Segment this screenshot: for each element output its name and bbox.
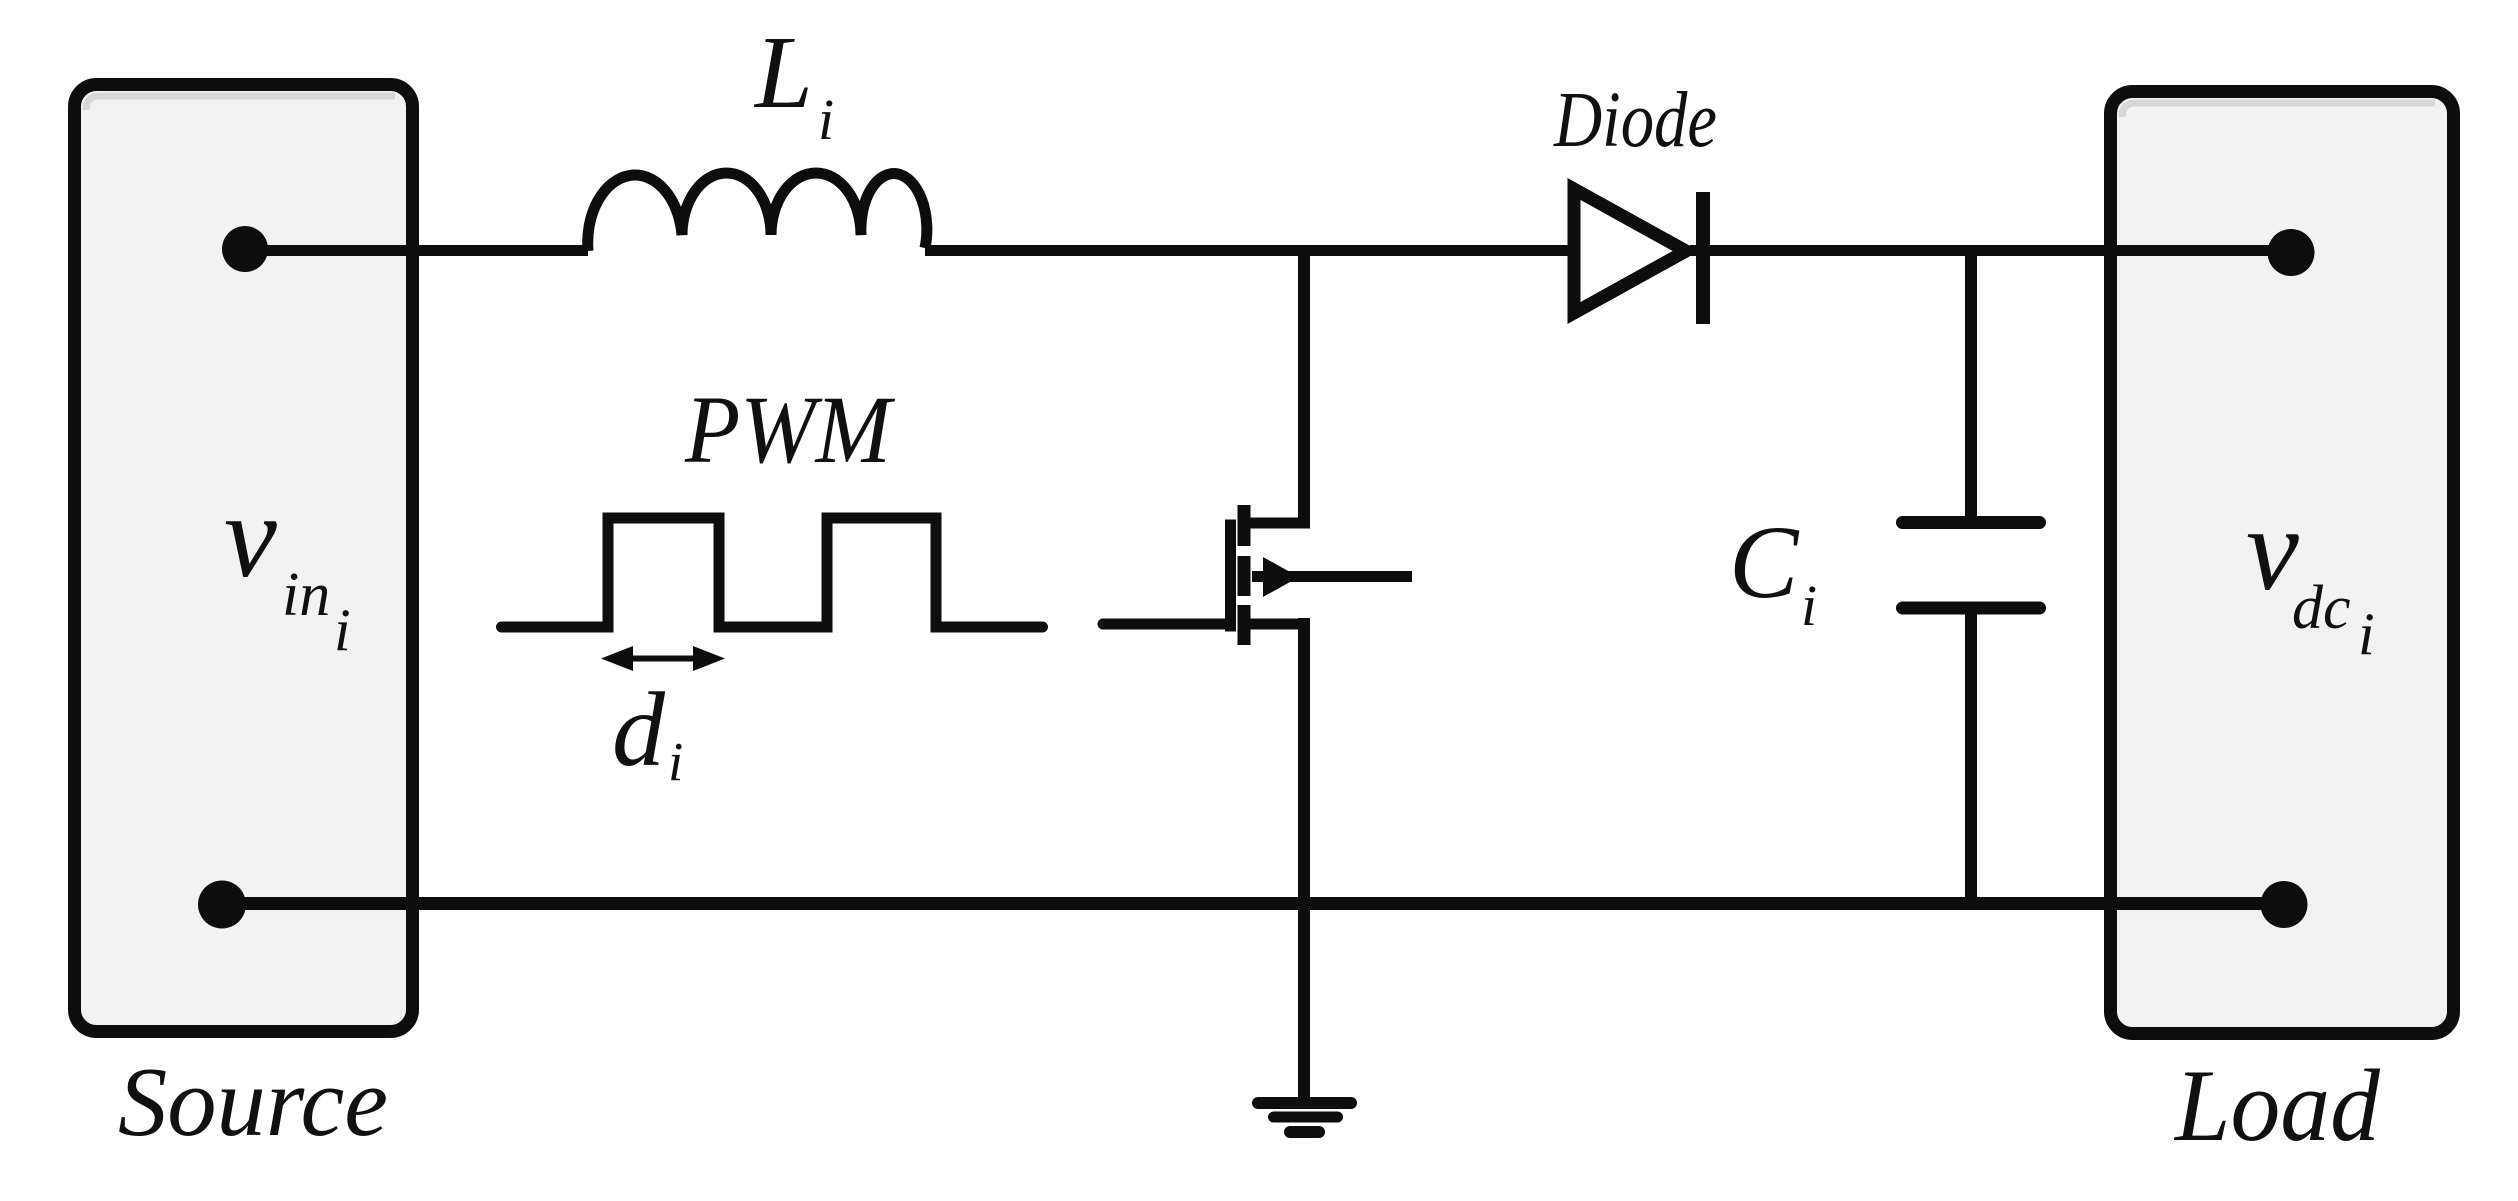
svg-text:i: i <box>334 597 351 663</box>
transistor Q1 channel bar <box>1238 505 1251 645</box>
capacitor label Ci <box>1729 505 1817 638</box>
transistor Q1 source connection <box>1250 619 1310 630</box>
duty cycle label di <box>612 671 683 792</box>
capacitor Ci bottom wire <box>1965 614 1977 905</box>
ground <box>1258 1103 1351 1132</box>
load box <box>2111 92 2454 1034</box>
PWM label <box>684 376 896 483</box>
svg-text:v: v <box>224 470 277 602</box>
duty cycle arrow <box>601 646 725 671</box>
transistor Q1 gate lead <box>1103 619 1226 630</box>
node C junction dot (load +) <box>2268 229 2315 276</box>
transistor Q1 body arrow <box>1252 557 1412 597</box>
svg-text:Load: Load <box>2173 1049 2380 1163</box>
svg-text:i: i <box>2358 601 2375 667</box>
wire bottom <box>222 897 2284 910</box>
svg-text:i: i <box>1801 573 1817 638</box>
diode label <box>1553 77 1717 164</box>
PWM waveform <box>502 518 1043 627</box>
node D junction dot (load -) <box>2261 881 2308 928</box>
node vin_i label <box>224 470 351 663</box>
transistor Q1 drain wire <box>1298 245 1310 523</box>
inductor Li <box>588 173 927 251</box>
wire top-right: diode to load <box>1690 245 2288 256</box>
svg-text:dc: dc <box>2292 574 2351 642</box>
transistor Q1 gate bar <box>1225 520 1236 632</box>
svg-text:d: d <box>612 671 666 788</box>
capacitor Ci <box>1903 523 2040 609</box>
Source box label <box>118 1048 388 1157</box>
diode D <box>1574 189 1703 324</box>
inductor label Li <box>753 15 834 152</box>
transistor Q1 drain connection <box>1247 518 1310 529</box>
node B junction dot (source -) <box>198 881 246 929</box>
svg-text:Diode: Diode <box>1553 77 1717 164</box>
svg-text:Source: Source <box>118 1048 388 1157</box>
Load box label <box>2173 1049 2380 1163</box>
svg-text:PWM: PWM <box>684 376 896 483</box>
svg-text:in: in <box>282 561 330 629</box>
node A junction dot (source +) <box>222 226 268 272</box>
source box <box>75 85 413 1032</box>
transistor Q1 source wire to ground <box>1298 618 1310 1097</box>
svg-text:i: i <box>668 731 683 792</box>
wire top-left: source to inductor <box>245 245 588 256</box>
svg-text:L: L <box>753 15 813 130</box>
wire top-middle: inductor to diode <box>925 245 1570 256</box>
svg-text:C: C <box>1729 505 1800 620</box>
svg-text:i: i <box>818 87 834 152</box>
node vdc_i label <box>2246 483 2375 667</box>
capacitor Ci top wire <box>1965 245 1977 517</box>
